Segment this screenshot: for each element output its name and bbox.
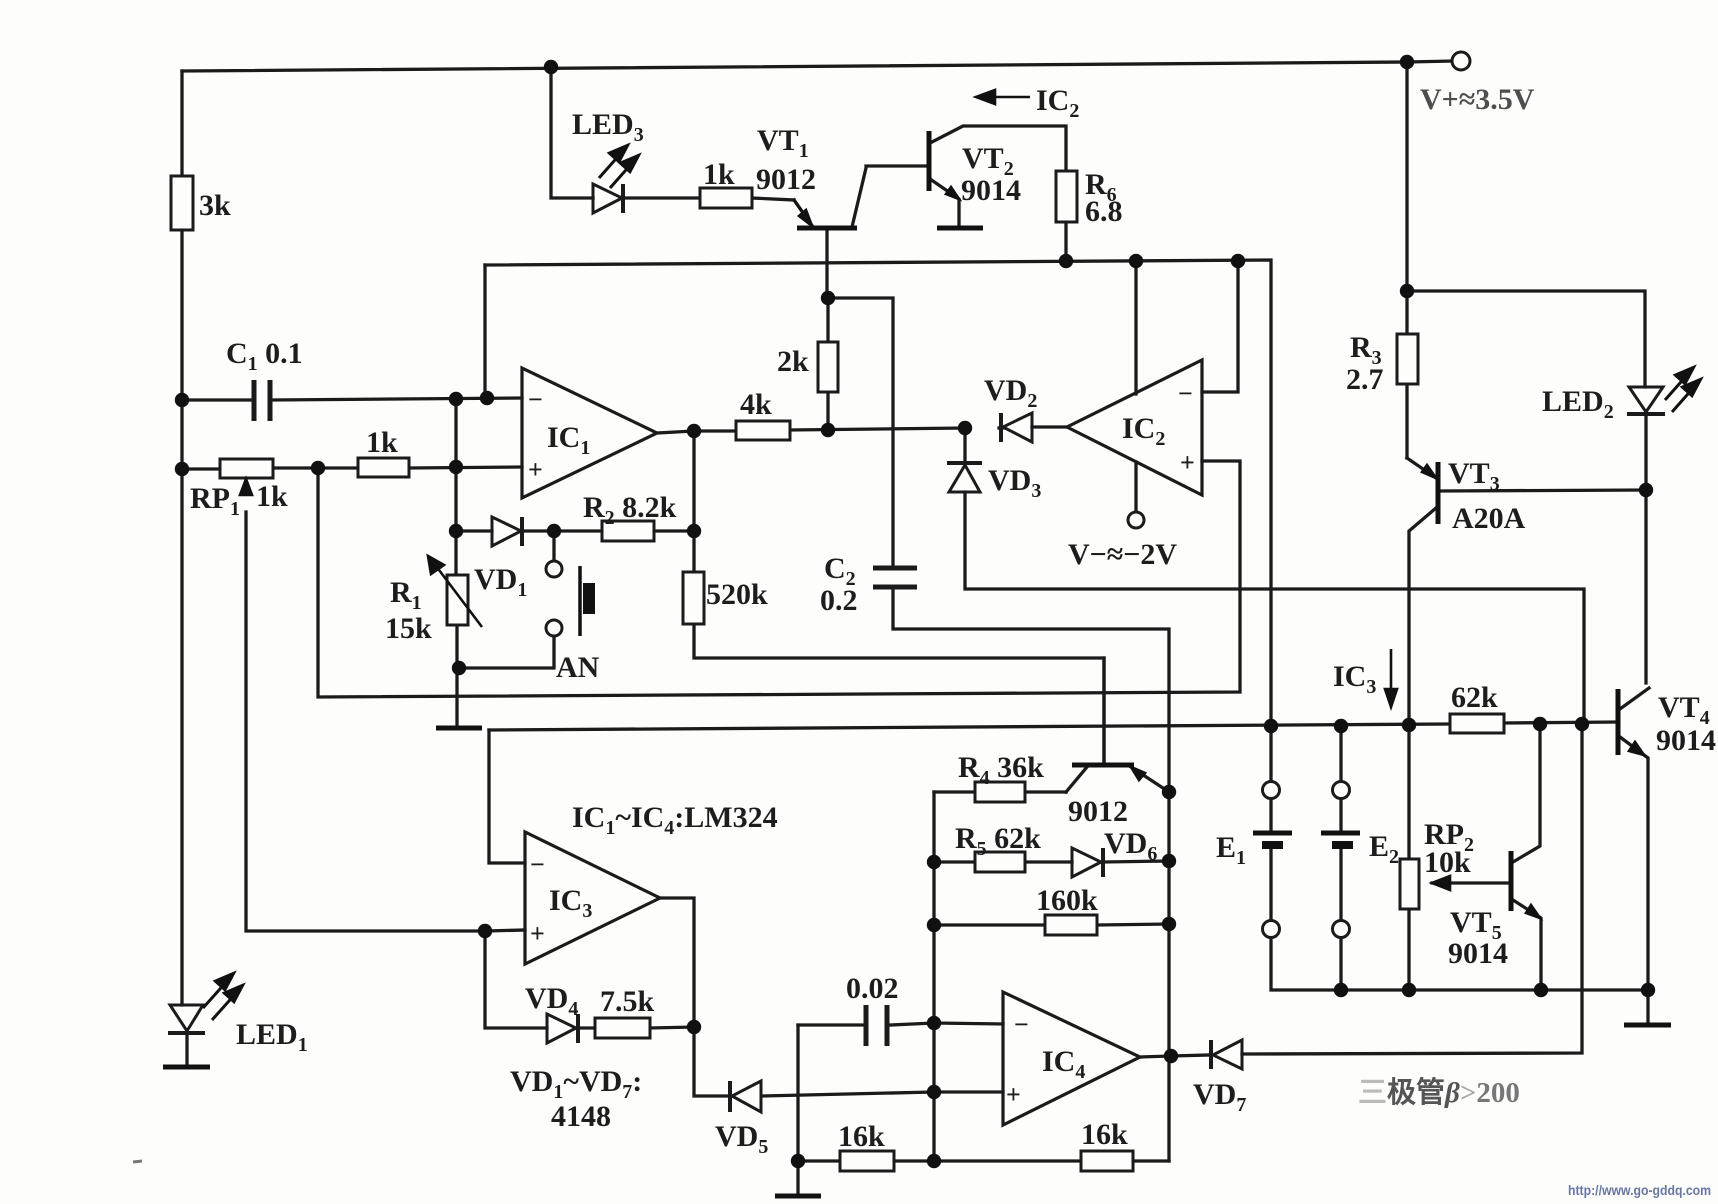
svg-text:+: + [1006, 1080, 1021, 1109]
svg-text:1k: 1k [256, 480, 288, 513]
svg-text:16k: 16k [838, 1120, 885, 1153]
svg-text:−: − [1178, 379, 1193, 408]
svg-text:A20A: A20A [1452, 502, 1526, 535]
svg-text:62k: 62k [1451, 681, 1498, 714]
svg-text:+: + [530, 919, 545, 948]
svg-text:−: − [530, 850, 545, 879]
svg-text:0.02: 0.02 [846, 972, 899, 1005]
svg-text:−: − [528, 385, 543, 414]
svg-text:C1 0.1: C1 0.1 [226, 337, 303, 375]
svg-text:1k: 1k [366, 426, 398, 459]
svg-text:15k: 15k [385, 612, 432, 645]
svg-text:2k: 2k [777, 345, 809, 378]
svg-text:9014: 9014 [961, 174, 1021, 207]
svg-text:LED3: LED3 [572, 108, 644, 146]
svg-text:R5 62k: R5 62k [955, 822, 1041, 860]
svg-text:3k: 3k [199, 189, 231, 222]
svg-text:9012: 9012 [1068, 795, 1128, 828]
svg-text:IC1~IC4:LM324: IC1~IC4:LM324 [572, 801, 778, 839]
svg-text:+: + [1180, 448, 1195, 477]
svg-text:R4 36k: R4 36k [958, 751, 1044, 789]
svg-text:三极管β>200: 三极管β>200 [1358, 1075, 1520, 1109]
svg-text:6.8: 6.8 [1085, 195, 1123, 228]
svg-text:−: − [1014, 1010, 1029, 1039]
svg-text:+: + [528, 455, 543, 484]
svg-text:LED1: LED1 [236, 1018, 308, 1056]
svg-text:V+≈3.5V: V+≈3.5V [1420, 83, 1535, 116]
svg-text:LED2: LED2 [1542, 385, 1614, 423]
svg-text:7.5k: 7.5k [600, 985, 655, 1018]
svg-text:R2 8.2k: R2 8.2k [583, 491, 677, 529]
svg-text:0.2: 0.2 [820, 584, 858, 617]
svg-text:2.7: 2.7 [1346, 363, 1384, 396]
svg-text:V−≈−2V: V−≈−2V [1068, 538, 1177, 571]
svg-text:4k: 4k [740, 388, 772, 421]
svg-text:160k: 160k [1036, 884, 1098, 917]
svg-text:16k: 16k [1081, 1118, 1128, 1151]
svg-text:4148: 4148 [551, 1100, 611, 1133]
svg-text:10k: 10k [1424, 846, 1471, 879]
svg-text:1k: 1k [703, 158, 735, 191]
svg-text:9012: 9012 [756, 163, 816, 196]
svg-text:9014: 9014 [1656, 724, 1716, 757]
svg-text:520k: 520k [706, 578, 768, 611]
svg-text:9014: 9014 [1448, 937, 1508, 970]
svg-text:http://www.go-gddq.com: http://www.go-gddq.com [1568, 1182, 1711, 1198]
svg-text:AN: AN [556, 651, 600, 684]
